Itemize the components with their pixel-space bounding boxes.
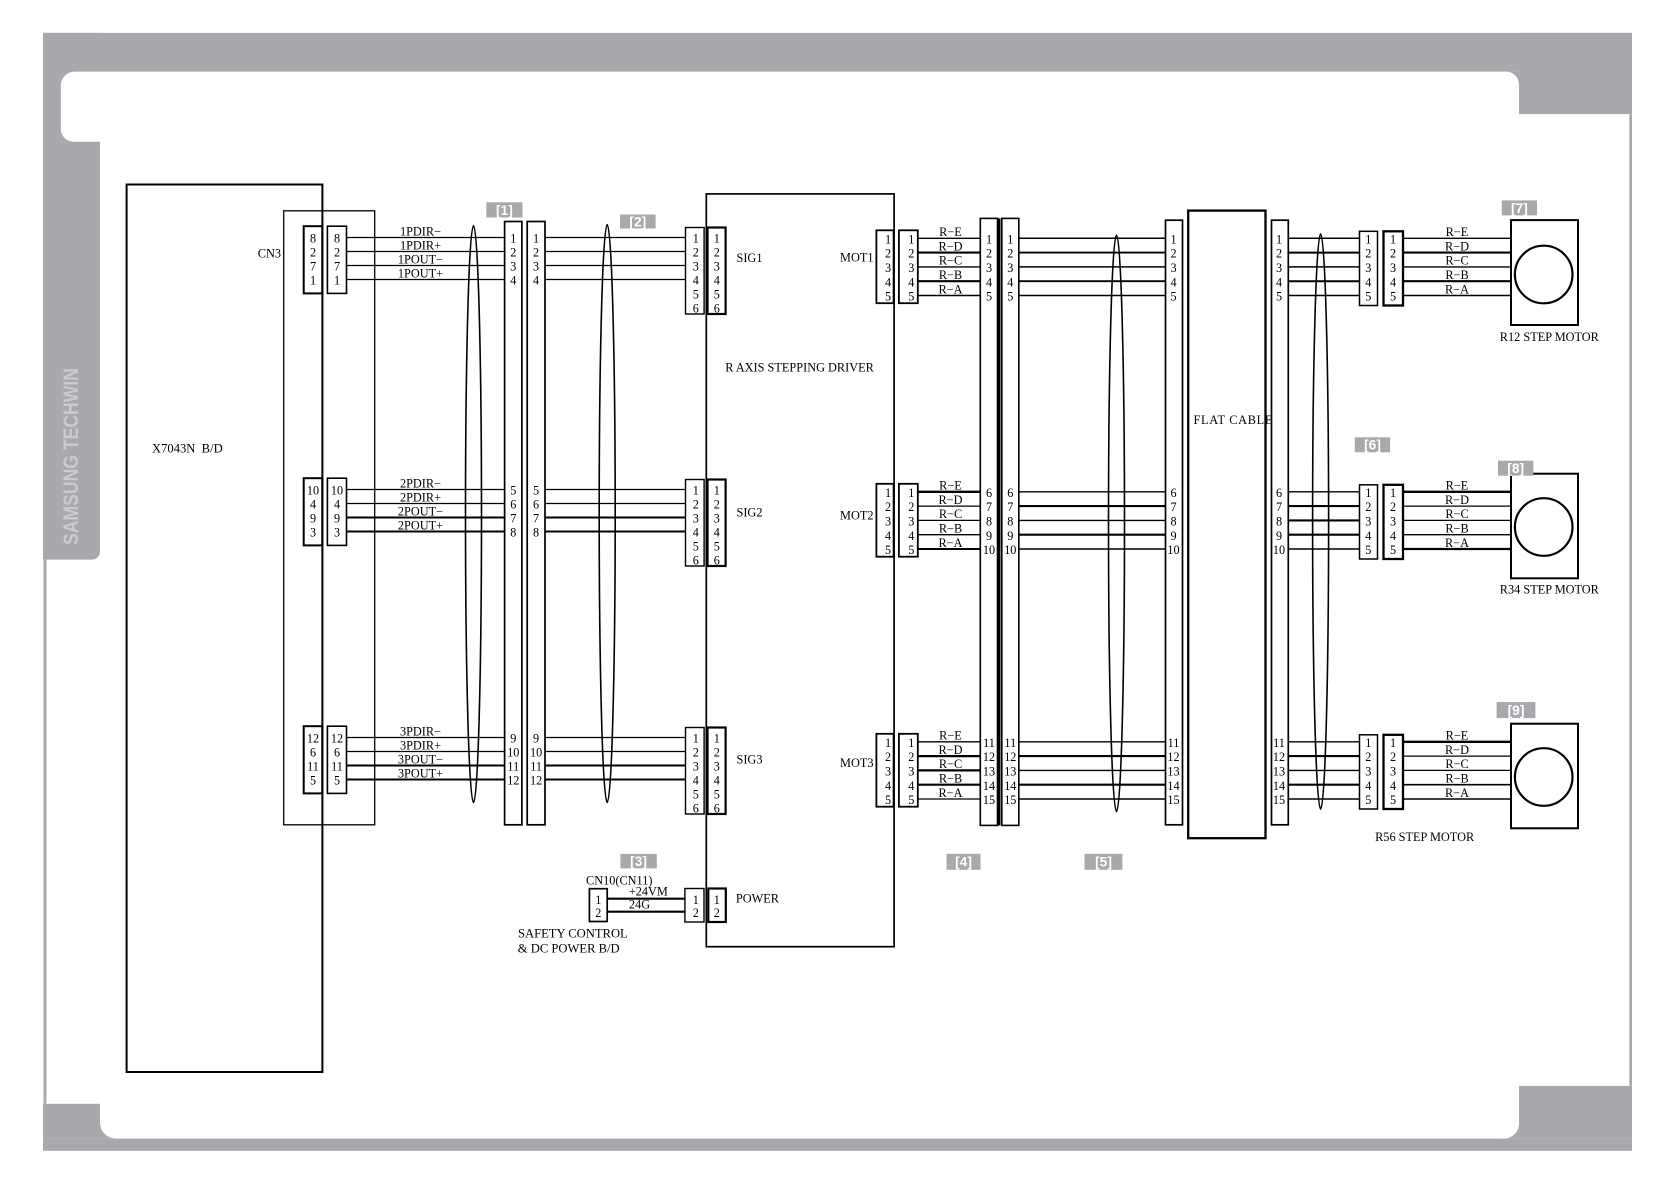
connector MOT1 driver-side pin box — [876, 230, 893, 303]
wire R−A to R56 step motor — [1403, 786, 1511, 800]
reference chip [9] — [1497, 702, 1536, 718]
CN10 pin numbers 1,2 — [595, 893, 601, 920]
svg-text:3: 3 — [1390, 765, 1396, 779]
svg-text:5: 5 — [885, 290, 891, 304]
connector [4] strip B — [1002, 218, 1019, 825]
svg-text:5: 5 — [908, 290, 914, 304]
MOT1 cable-side pin numbers 1-5 — [908, 232, 914, 303]
wire 2PDIR− from connector [1] to SIG2 — [545, 489, 686, 491]
svg-text:SAFETY CONTROL: SAFETY CONTROL — [518, 927, 628, 941]
svg-text:1: 1 — [693, 893, 699, 907]
wire 2PDIR+ from connector [1] to SIG2 — [545, 503, 686, 505]
svg-text:8: 8 — [533, 526, 539, 540]
R34 step motor circle — [1515, 498, 1573, 556]
svg-text:15: 15 — [983, 793, 995, 807]
CN3 board-side pin numbers pins 10,4,9,3 — [307, 484, 319, 540]
SIG3 outside strip pin numbers 1-6 — [693, 732, 699, 816]
svg-text:3: 3 — [714, 512, 720, 526]
svg-text:R−D: R−D — [1445, 743, 1469, 757]
connector MOT2 cable-side pin box — [899, 484, 918, 557]
svg-text:4: 4 — [885, 779, 891, 793]
svg-text:8: 8 — [510, 526, 516, 540]
svg-text:R AXIS STEPPING DRIVER: R AXIS STEPPING DRIVER — [725, 361, 874, 375]
svg-text:11: 11 — [1004, 736, 1016, 750]
connector [5] pin numbers 1-15 — [1167, 232, 1179, 807]
svg-text:R−E: R−E — [1446, 729, 1469, 743]
svg-text:1: 1 — [714, 232, 720, 246]
wire R−C group 2 from flat cable to motor connector — [1288, 519, 1359, 521]
reference chip [4] — [947, 854, 981, 870]
svg-text:3: 3 — [885, 765, 891, 779]
wire R−B group 2 from connector [4] to connector [5] — [1019, 534, 1166, 536]
svg-text:4: 4 — [1276, 275, 1282, 289]
svg-text:MOT2: MOT2 — [840, 509, 873, 523]
svg-text:4: 4 — [693, 526, 699, 540]
svg-text:R−E: R−E — [1446, 479, 1469, 493]
svg-text:4: 4 — [510, 274, 516, 288]
svg-text:5: 5 — [1365, 543, 1371, 557]
svg-text:12: 12 — [1167, 750, 1179, 764]
wire R−B to R56 step motor — [1403, 772, 1511, 786]
svg-text:1POUT−: 1POUT− — [398, 253, 443, 267]
svg-text:4: 4 — [714, 774, 720, 788]
svg-text:4: 4 — [885, 275, 891, 289]
svg-text:3: 3 — [908, 765, 914, 779]
svg-text:5: 5 — [908, 793, 914, 807]
svg-text:4: 4 — [693, 774, 699, 788]
svg-text:2: 2 — [510, 246, 516, 260]
svg-text:5: 5 — [693, 788, 699, 802]
wire R−B from MOT3 to connector [4] — [918, 772, 981, 786]
wire R−E group 1 from connector [4] to connector [5] — [1019, 237, 1166, 239]
svg-text:R−A: R−A — [1445, 282, 1469, 296]
MOT1 driver-side pin numbers 1-5 — [885, 232, 891, 303]
svg-text:1: 1 — [1365, 486, 1371, 500]
connector [4] cable line — [998, 218, 1001, 825]
svg-text:[5]: [5] — [1095, 855, 1112, 870]
connector MOT1 cable-side pin box — [899, 230, 918, 303]
connector MOT3 cable-side pin box — [899, 734, 918, 807]
svg-text:1: 1 — [714, 893, 720, 907]
wire R−D from MOT2 to connector [4] — [918, 493, 981, 507]
connector SIG2 strip on driver — [708, 480, 726, 567]
svg-text:15: 15 — [1004, 793, 1016, 807]
wire R−E to R56 step motor — [1403, 729, 1511, 743]
svg-text:2PDIR+: 2PDIR+ — [400, 491, 441, 505]
svg-text:4: 4 — [1170, 275, 1176, 289]
svg-text:5: 5 — [986, 290, 992, 304]
MOT3 cable-side pin numbers 1-5 — [908, 736, 914, 807]
svg-text:2: 2 — [310, 246, 316, 260]
svg-text:4: 4 — [1007, 275, 1013, 289]
svg-text:R−C: R−C — [1445, 507, 1468, 521]
wire R−D to R34 step motor — [1403, 493, 1511, 507]
svg-text:9: 9 — [1276, 529, 1282, 543]
svg-text:R56 STEP MOTOR: R56 STEP MOTOR — [1375, 830, 1475, 844]
svg-text:11: 11 — [983, 736, 995, 750]
wire 1PDIR− from CN3 to connector [1] — [347, 225, 505, 239]
wire 1POUT+ from connector [1] to SIG1 — [545, 279, 686, 281]
svg-text:5: 5 — [693, 288, 699, 302]
svg-text:7: 7 — [1007, 500, 1013, 514]
wire 2POUT− from CN3 to connector [1] — [347, 505, 505, 519]
connector CN3 cable-side pin box pins 10,4,9,3 — [327, 478, 346, 545]
svg-text:1: 1 — [714, 484, 720, 498]
svg-text:R−A: R−A — [938, 282, 962, 296]
wire R−D from MOT3 to connector [4] — [918, 743, 981, 757]
svg-text:1: 1 — [1390, 486, 1396, 500]
svg-text:12: 12 — [983, 750, 995, 764]
svg-text:3: 3 — [334, 526, 340, 540]
svg-text:2: 2 — [693, 906, 699, 920]
svg-text:10: 10 — [307, 484, 319, 498]
svg-text:R−B: R−B — [939, 772, 962, 786]
reference chip [1] — [486, 202, 522, 218]
svg-text:1: 1 — [885, 736, 891, 750]
svg-text:3PDIR−: 3PDIR− — [400, 725, 441, 739]
wire R−A group 2 from flat cable to motor connector — [1288, 548, 1359, 550]
SIG1 driver strip pin numbers 1-6 — [714, 232, 720, 316]
svg-text:SIG3: SIG3 — [737, 753, 763, 767]
wire R−B from MOT1 to connector [4] — [918, 268, 981, 282]
svg-text:6: 6 — [714, 554, 720, 568]
svg-text:4: 4 — [334, 498, 340, 512]
connector SIG3 strip on driver — [708, 728, 726, 815]
svg-text:13: 13 — [1273, 765, 1285, 779]
svg-text:R−D: R−D — [1445, 493, 1469, 507]
svg-text:1: 1 — [1365, 736, 1371, 750]
svg-text:R−D: R−D — [938, 239, 962, 253]
svg-text:2: 2 — [908, 750, 914, 764]
wire R−E group 2 from connector [4] to connector [5] — [1019, 491, 1166, 493]
svg-text:14: 14 — [1167, 779, 1179, 793]
cable bundle ellipse between [4] and [5] — [1109, 235, 1125, 812]
connector CN3 cable-side pin box pins 12,6,11,5 — [327, 726, 346, 793]
svg-text:[7]: [7] — [1511, 201, 1528, 216]
svg-text:4: 4 — [1390, 275, 1396, 289]
wire R−C group 3 from flat cable to motor connector — [1288, 769, 1359, 771]
svg-text:2: 2 — [1007, 247, 1013, 261]
svg-text:7: 7 — [986, 500, 992, 514]
flat cable box — [1188, 211, 1265, 839]
svg-text:MOT1: MOT1 — [840, 251, 873, 265]
svg-text:2: 2 — [714, 746, 720, 760]
svg-text:1: 1 — [693, 732, 699, 746]
svg-text:13: 13 — [983, 765, 995, 779]
svg-text:FLAT CABLE: FLAT CABLE — [1194, 413, 1274, 427]
svg-text:4: 4 — [908, 779, 914, 793]
svg-text:4: 4 — [885, 529, 891, 543]
R56 step motor box — [1511, 724, 1578, 829]
reference chip [5] — [1085, 854, 1123, 870]
svg-text:6: 6 — [714, 302, 720, 316]
wire 1PDIR− from connector [1] to SIG1 — [545, 237, 686, 239]
wire 1PDIR+ from connector [1] to SIG1 — [545, 251, 686, 253]
svg-text:4: 4 — [986, 275, 992, 289]
svg-text:2: 2 — [334, 246, 340, 260]
svg-text:3: 3 — [1390, 261, 1396, 275]
wire R−B group 1 from flat cable to motor connector — [1288, 280, 1359, 282]
wire R−C to R12 step motor — [1403, 254, 1511, 268]
svg-text:4: 4 — [310, 498, 316, 512]
wire R−A to R12 step motor — [1403, 282, 1511, 296]
svg-text:3POUT−: 3POUT− — [398, 753, 443, 767]
connector [5] strip before flat cable — [1166, 220, 1183, 825]
wire 3POUT− from connector [1] to SIG3 — [545, 764, 686, 766]
svg-text:R−D: R−D — [938, 743, 962, 757]
svg-text:2: 2 — [885, 247, 891, 261]
svg-text:9: 9 — [533, 732, 539, 746]
R56 motor connector strip A — [1360, 735, 1378, 809]
driver box R AXIS STEPPING DRIVER — [706, 194, 894, 947]
svg-text:5: 5 — [885, 793, 891, 807]
wire R−A group 1 from connector [4] to connector [5] — [1019, 295, 1166, 297]
svg-text:MOT3: MOT3 — [840, 756, 873, 770]
svg-text:[3]: [3] — [630, 854, 647, 869]
wire R−A from MOT2 to connector [4] — [918, 536, 981, 550]
svg-text:2: 2 — [1170, 247, 1176, 261]
svg-text:10: 10 — [331, 484, 343, 498]
wire R−C from MOT2 to connector [4] — [918, 507, 981, 521]
cable bundle ellipse between CN3 and [1] — [466, 226, 482, 803]
svg-text:11: 11 — [530, 760, 542, 774]
wire R−A from MOT1 to connector [4] — [918, 282, 981, 296]
svg-text:1: 1 — [334, 274, 340, 288]
svg-text:10: 10 — [507, 746, 519, 760]
connector CN3 board-side pin box pins 10,4,9,3 — [304, 478, 323, 545]
svg-text:2: 2 — [908, 500, 914, 514]
svg-text:4: 4 — [1365, 275, 1371, 289]
wire R−D group 1 from connector [4] to connector [5] — [1019, 252, 1166, 254]
svg-text:1: 1 — [1390, 736, 1396, 750]
svg-text:3: 3 — [1007, 261, 1013, 275]
wire R−C group 1 from flat cable to motor connector — [1288, 266, 1359, 268]
svg-text:11: 11 — [331, 760, 343, 774]
svg-text:2: 2 — [1276, 247, 1282, 261]
svg-text:R−B: R−B — [939, 268, 962, 282]
svg-text:10: 10 — [1273, 543, 1285, 557]
svg-text:14: 14 — [1273, 779, 1285, 793]
svg-text:3: 3 — [1390, 515, 1396, 529]
wire 3POUT+ from CN3 to connector [1] — [347, 767, 505, 781]
svg-text:6: 6 — [986, 486, 992, 500]
svg-text:8: 8 — [1170, 515, 1176, 529]
svg-text:7: 7 — [334, 260, 340, 274]
connector SIG1 strip on driver — [708, 228, 726, 315]
connector CN3 container box — [284, 211, 375, 825]
svg-text:11: 11 — [1168, 736, 1180, 750]
svg-text:6: 6 — [1007, 486, 1013, 500]
svg-text:1: 1 — [885, 486, 891, 500]
svg-text:3: 3 — [986, 261, 992, 275]
svg-text:R−B: R−B — [1445, 268, 1468, 282]
svg-text:1: 1 — [1276, 232, 1282, 246]
svg-text:4: 4 — [1365, 529, 1371, 543]
svg-text:10: 10 — [1167, 543, 1179, 557]
svg-text:5: 5 — [1365, 290, 1371, 304]
svg-text:9: 9 — [1007, 529, 1013, 543]
svg-text:5: 5 — [334, 774, 340, 788]
connector SIG1 strip outside driver — [686, 228, 705, 315]
svg-text:2POUT+: 2POUT+ — [398, 519, 443, 533]
wire 1POUT+ from CN3 to connector [1] — [347, 267, 505, 281]
svg-text:6: 6 — [1170, 486, 1176, 500]
svg-text:1: 1 — [693, 484, 699, 498]
connector [1] strip A pin numbers 1-12 — [507, 232, 519, 788]
svg-text:2: 2 — [885, 500, 891, 514]
svg-text:CN3: CN3 — [258, 247, 281, 261]
svg-text:X7043N B/D: X7043N B/D — [152, 441, 223, 455]
svg-text:[6]: [6] — [1364, 438, 1381, 453]
wire R−E from MOT1 to connector [4] — [918, 225, 981, 239]
svg-text:12: 12 — [530, 774, 542, 788]
svg-text:4: 4 — [1390, 529, 1396, 543]
wire R−D from MOT1 to connector [4] — [918, 239, 981, 253]
svg-text:6: 6 — [693, 554, 699, 568]
svg-text:3POUT+: 3POUT+ — [398, 767, 443, 781]
wire R−A to R34 step motor — [1403, 536, 1511, 550]
MOT2 driver-side pin numbers 1-5 — [885, 486, 891, 557]
svg-text:R−C: R−C — [1445, 757, 1468, 771]
reference chip [3] — [620, 854, 656, 869]
svg-text:7: 7 — [533, 512, 539, 526]
CN3 board-side pin numbers pins 8,2,7,1 — [310, 232, 316, 288]
wire 24G from CN10 to POWER — [607, 897, 685, 911]
svg-text:3: 3 — [693, 760, 699, 774]
svg-text:12: 12 — [307, 732, 319, 746]
svg-text:3: 3 — [533, 260, 539, 274]
svg-text:1: 1 — [908, 232, 914, 246]
connector POWER strip outside driver — [685, 889, 704, 923]
svg-text:3: 3 — [885, 261, 891, 275]
svg-text:5: 5 — [310, 774, 316, 788]
svg-text:R−E: R−E — [939, 225, 962, 239]
wire R−E from MOT3 to connector [4] — [918, 729, 981, 743]
R12 motor strip A pin numbers 1-5 — [1365, 232, 1371, 303]
svg-text:R−B: R−B — [1445, 772, 1468, 786]
wire 2PDIR+ from CN3 to connector [1] — [347, 491, 505, 505]
svg-text:R12 STEP MOTOR: R12 STEP MOTOR — [1500, 330, 1600, 344]
wire 2POUT− from connector [1] to SIG2 — [545, 516, 686, 518]
wire R−C from MOT3 to connector [4] — [918, 757, 981, 771]
R34 motor connector strip A — [1360, 485, 1378, 559]
svg-text:R−C: R−C — [939, 254, 962, 268]
svg-text:[8]: [8] — [1507, 461, 1524, 476]
svg-text:SIG1: SIG1 — [737, 251, 763, 265]
CN3 board-side pin numbers pins 12,6,11,5 — [307, 732, 319, 788]
svg-text:3PDIR+: 3PDIR+ — [400, 739, 441, 753]
R56 motor strip A pin numbers 1-5 — [1365, 736, 1371, 807]
reference chip [2] — [620, 214, 656, 229]
svg-text:7: 7 — [1170, 500, 1176, 514]
svg-text:8: 8 — [986, 515, 992, 529]
R12 step motor box — [1511, 220, 1578, 325]
svg-text:11: 11 — [507, 760, 519, 774]
svg-text:1PDIR−: 1PDIR− — [400, 225, 441, 239]
svg-text:& DC POWER B/D: & DC POWER B/D — [518, 942, 620, 956]
svg-text:R−E: R−E — [1446, 225, 1469, 239]
svg-text:5: 5 — [714, 540, 720, 554]
svg-text:9: 9 — [334, 512, 340, 526]
svg-text:15: 15 — [1273, 793, 1285, 807]
svg-text:15: 15 — [1167, 793, 1179, 807]
board X7043N B/D outline — [127, 185, 323, 1073]
svg-text:1: 1 — [1170, 232, 1176, 246]
svg-text:4: 4 — [1390, 779, 1396, 793]
svg-text:1PDIR+: 1PDIR+ — [400, 239, 441, 253]
svg-text:1: 1 — [533, 232, 539, 246]
R56 step motor circle — [1515, 748, 1573, 806]
connector CN3 cable-side pin box pins 8,2,7,1 — [327, 226, 346, 293]
R34 motor strip B pin numbers 1-5 — [1390, 486, 1396, 557]
svg-text:5: 5 — [533, 484, 539, 498]
svg-text:4: 4 — [908, 275, 914, 289]
connector SIG2 strip outside driver — [686, 480, 705, 567]
svg-text:[2]: [2] — [629, 214, 646, 229]
svg-text:2: 2 — [595, 906, 601, 920]
svg-text:7: 7 — [310, 260, 316, 274]
svg-text:3: 3 — [1276, 261, 1282, 275]
connector MOT2 driver-side pin box — [876, 484, 893, 557]
svg-text:3: 3 — [714, 760, 720, 774]
svg-text:R−B: R−B — [1445, 522, 1468, 536]
wire R−B group 3 from connector [4] to connector [5] — [1019, 784, 1166, 786]
connector [1] strip A — [505, 222, 522, 825]
svg-text:8: 8 — [1007, 515, 1013, 529]
SIG2 driver strip pin numbers 1-6 — [714, 484, 720, 568]
svg-text:2PDIR−: 2PDIR− — [400, 477, 441, 491]
wire R−D group 3 from flat cable to motor connector — [1288, 755, 1359, 757]
svg-text:1: 1 — [310, 274, 316, 288]
wire R−A from MOT3 to connector [4] — [918, 786, 981, 800]
connector SIG3 strip outside driver — [686, 728, 705, 815]
wire R−C group 3 from connector [4] to connector [5] — [1019, 769, 1166, 771]
svg-text:7: 7 — [510, 512, 516, 526]
svg-text:6: 6 — [334, 746, 340, 760]
wire R−B to R34 step motor — [1403, 522, 1511, 536]
svg-text:3: 3 — [714, 260, 720, 274]
wire R−A group 1 from flat cable to motor connector — [1288, 295, 1359, 297]
svg-text:5: 5 — [1390, 543, 1396, 557]
svg-text:5: 5 — [1390, 290, 1396, 304]
SIG2 outside strip pin numbers 1-6 — [693, 484, 699, 568]
svg-text:3: 3 — [510, 260, 516, 274]
wire R−A group 3 from connector [4] to connector [5] — [1019, 798, 1166, 800]
svg-text:1: 1 — [1007, 232, 1013, 246]
wire 2POUT+ from CN3 to connector [1] — [347, 519, 505, 533]
wire R−D group 2 from connector [4] to connector [5] — [1019, 505, 1166, 507]
connector POWER strip on driver — [708, 889, 726, 923]
svg-text:4: 4 — [908, 529, 914, 543]
reference chip [6] — [1355, 437, 1390, 452]
reference chip [8] — [1498, 461, 1533, 476]
svg-text:24G: 24G — [629, 897, 650, 911]
R56 motor connector strip B — [1384, 735, 1404, 809]
R12 motor connector strip A — [1360, 231, 1378, 305]
svg-text:2: 2 — [693, 746, 699, 760]
connector strip after flat cable — [1272, 220, 1289, 825]
POWER driver strip pin numbers 1,2 — [714, 893, 720, 920]
svg-text:8: 8 — [1276, 515, 1282, 529]
svg-text:[1]: [1] — [496, 203, 513, 218]
svg-text:12: 12 — [1004, 750, 1016, 764]
svg-text:1: 1 — [908, 486, 914, 500]
svg-text:2: 2 — [714, 906, 720, 920]
svg-text:10: 10 — [530, 746, 542, 760]
svg-text:4: 4 — [693, 274, 699, 288]
svg-text:11: 11 — [1273, 736, 1285, 750]
R34 step motor box — [1511, 474, 1578, 579]
